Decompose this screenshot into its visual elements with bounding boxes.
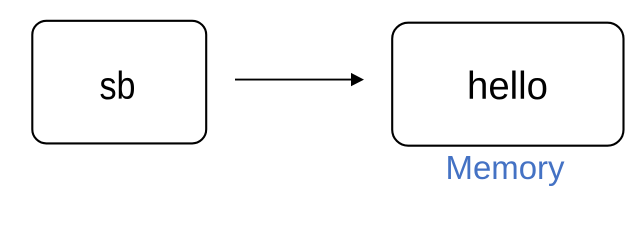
box hello: [392, 23, 623, 146]
arrowhead: [351, 73, 364, 86]
svg-text:Memory: Memory: [446, 150, 565, 187]
box sb: [32, 21, 206, 144]
wire arrow: [235, 79, 352, 81]
svg-text:hello: hello: [467, 65, 548, 108]
svg-text:sb: sb: [100, 65, 136, 108]
